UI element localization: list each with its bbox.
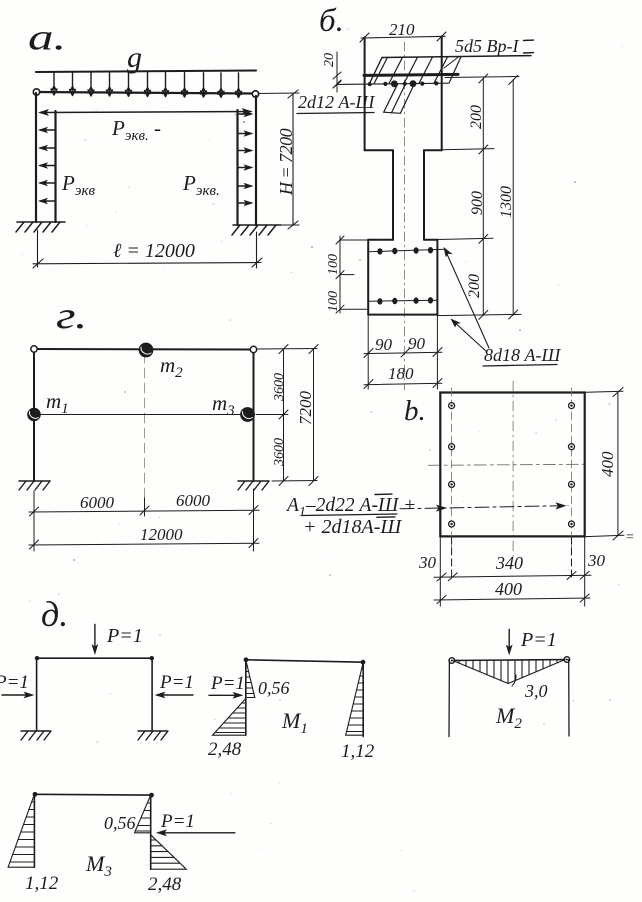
A1 leader arrow into section [400, 506, 568, 509]
svg-text:Р=1: Р=1 [0, 672, 29, 693]
svg-text:3,0: 3,0 [524, 681, 548, 701]
frame G left column [33, 349, 35, 481]
svg-text:д.: д. [41, 594, 68, 634]
dim 12000 bottom [29, 539, 259, 550]
frame D right column [151, 658, 153, 731]
top flange bottom edges [365, 149, 442, 151]
P=1 right arrow (frame D) [158, 694, 193, 696]
M3 node right [149, 793, 154, 798]
M1 right moment triangle [346, 662, 364, 735]
frame G centre axis [144, 353, 146, 508]
svg-text:Р=1: Р=1 [210, 673, 245, 694]
svg-text:g: g [127, 41, 142, 74]
M1 node left [244, 657, 249, 662]
dims 100 100 left [336, 236, 367, 313]
corner node left [35, 656, 39, 660]
M3 right column [150, 795, 152, 869]
support right G [238, 481, 269, 490]
M1 node right [361, 660, 366, 665]
frame D beam [37, 657, 153, 659]
M2 apex arc mark [512, 675, 516, 686]
dim 3600/3600 right [256, 345, 317, 486]
Pekv equivalent force arrow (beam level) [40, 112, 251, 113]
svg-text:90: 90 [408, 334, 426, 353]
M1 upper moment triangle [246, 660, 255, 698]
frame A beam axis line [36, 92, 256, 94]
svg-text:180: 180 [388, 364, 414, 383]
M3 node left [33, 792, 38, 797]
left column [35, 93, 37, 222]
M1 right column [362, 662, 364, 736]
M2 node left [449, 658, 455, 664]
M2 right column [568, 660, 570, 737]
svg-text:30: 30 [587, 551, 606, 570]
svg-text:900: 900 [469, 191, 486, 215]
frame G mid line [34, 414, 254, 416]
frame G right column [253, 350, 255, 482]
bottom flange rebar row 1 [368, 249, 445, 251]
section axis vertical [512, 381, 514, 558]
section axis horizontal [428, 464, 584, 465]
svg-text:1,12: 1,12 [341, 741, 375, 762]
hinge left G [31, 346, 37, 352]
svg-text:340: 340 [495, 553, 523, 573]
svg-text:20: 20 [322, 53, 337, 67]
svg-text:0,56: 0,56 [258, 678, 290, 698]
svg-text:210: 210 [389, 20, 415, 39]
mass m2 [139, 343, 153, 357]
svg-text:1300: 1300 [498, 186, 515, 218]
dim 30/340/30 [434, 537, 591, 606]
slab hatch strokes [374, 57, 461, 84]
corner node right [150, 656, 154, 660]
right dim line 1300 [509, 76, 518, 320]
stirrup axis right [571, 388, 573, 548]
dim 90 90 [364, 315, 442, 389]
welded mesh line (thick) [364, 74, 458, 75]
distributed load g arrows [51, 72, 242, 98]
svg-text:400: 400 [495, 579, 522, 599]
right dim line 200/900/200 [437, 74, 521, 319]
svg-text:0,56: 0,56 [104, 813, 136, 833]
frame A beam top line [36, 71, 256, 73]
svg-text:100: 100 [326, 254, 341, 275]
M3 left moment triangle [8, 794, 34, 867]
5d5 leader [444, 57, 459, 69]
svg-text:b.: b. [404, 395, 426, 427]
M2 beam [449, 660, 568, 661]
M3 P=1 arrow [160, 832, 235, 834]
M1 P=1 arrow [209, 694, 239, 696]
svg-text:100: 100 [326, 291, 341, 312]
support left D [21, 731, 51, 740]
svg-text:Р=1: Р=1 [159, 672, 194, 693]
slab mesh dots 5d5 (small) [368, 81, 439, 86]
M3 beam [34, 793, 151, 796]
support right D [138, 731, 168, 740]
rebar circles right column [569, 403, 575, 527]
svg-text:1,12: 1,12 [25, 873, 59, 894]
dimension H=7200 [258, 90, 299, 229]
M3 left column [33, 794, 35, 867]
svg-text:Р=1: Р=1 [520, 629, 557, 651]
svg-text:6000: 6000 [176, 491, 211, 510]
svg-text:8d18 А-Ш: 8d18 А-Ш [484, 345, 561, 365]
M1 lower moment triangle [213, 699, 246, 736]
svg-text:а.: а. [28, 16, 66, 57]
hinge left [33, 89, 39, 95]
unit load P=1 top arrow [94, 625, 96, 653]
M1 diagram beam [246, 660, 363, 662]
svg-text:2,48: 2,48 [208, 739, 242, 760]
svg-text:б.: б. [319, 3, 344, 39]
support right A [232, 225, 281, 235]
M1 left column [245, 660, 247, 735]
web [393, 150, 424, 240]
svg-text:5d5 Вр-I: 5d5 Вр-I [455, 36, 519, 56]
rebar circles left column [449, 403, 455, 527]
svg-text:400: 400 [598, 451, 617, 477]
dim 210 [360, 32, 446, 42]
svg-text:6000: 6000 [80, 493, 115, 512]
svg-text:Р=1: Р=1 [160, 811, 195, 832]
top flange right side [441, 37, 443, 151]
slab top edge + 5d5 underline [382, 56, 531, 58]
stirrup axis left [451, 388, 453, 548]
slab rebar dots 2d12 (large) [391, 80, 398, 87]
bottom flange rebar row 2 [368, 300, 437, 301]
right column [255, 96, 257, 225]
svg-text:г.: г. [56, 294, 87, 337]
right top extension line [445, 77, 519, 78]
svg-text:ℓ = 12000: ℓ = 12000 [113, 240, 195, 262]
frame G beam [34, 348, 254, 351]
svg-text:3600: 3600 [272, 438, 287, 467]
dimension l=12000 [33, 230, 262, 268]
svg-text:90: 90 [375, 335, 393, 354]
svg-text:7200: 7200 [296, 391, 315, 426]
svg-text:30: 30 [418, 553, 437, 572]
svg-text:12000: 12000 [140, 525, 183, 544]
M2 moment triangle under beam [453, 660, 565, 684]
M2 P=1 arrow [508, 629, 510, 652]
dim 180 [364, 379, 442, 389]
svg-text:Р=1: Р=1 [106, 625, 143, 647]
slab rib below bars (hatched parallelogram) [384, 84, 415, 113]
support left G [19, 481, 50, 490]
mass m1 [28, 408, 40, 420]
hinge right G [250, 346, 256, 352]
frame D left column [36, 658, 38, 731]
dim 20 [333, 52, 341, 92]
section axis (vertical dash-dot) [403, 42, 405, 390]
M2 node right [564, 657, 570, 663]
M3 upper moment triangle [135, 795, 151, 833]
section square outline [440, 393, 584, 537]
support left A [16, 222, 65, 232]
dim 400 right [586, 388, 624, 541]
dim 400 bottom [434, 594, 590, 604]
top flange left side [364, 37, 366, 150]
rebar row line [337, 83, 448, 84]
hinge right [252, 91, 258, 97]
M3 lower moment triangle [151, 835, 187, 869]
right column load arrows [238, 111, 254, 206]
svg-text:200: 200 [466, 274, 483, 298]
svg-text:Н = 7200: Н = 7200 [276, 128, 296, 196]
svg-text:2d12 А-Ш: 2d12 А-Ш [298, 92, 375, 112]
bottom flange outline [368, 239, 437, 241]
left column load arrows [38, 127, 56, 204]
label 8d18 А-Ш with leaders [445, 249, 490, 349]
svg-text:+ 2d18А-Ш: + 2d18А-Ш [303, 516, 402, 538]
P=1 left arrow [2, 694, 31, 696]
svg-text:200: 200 [468, 105, 485, 129]
dim 7200 right [309, 345, 318, 486]
svg-text:2,48: 2,48 [148, 874, 182, 895]
M2 left column [448, 661, 450, 737]
mass m3 [241, 408, 255, 422]
svg-text:3600: 3600 [272, 373, 287, 402]
slab left cut edge [370, 58, 383, 84]
svg-text:=: = [625, 530, 634, 545]
dim 6000/6000 bottom [29, 489, 259, 551]
